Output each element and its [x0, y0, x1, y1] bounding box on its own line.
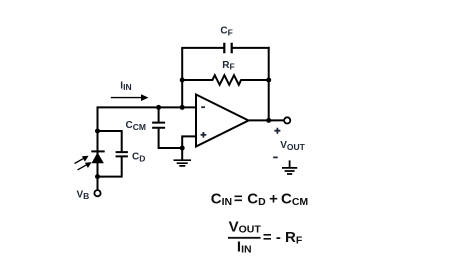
op-amp non-inverting input label +: [201, 132, 207, 138]
node junction output: [266, 118, 271, 123]
label + (VOUT positive): [274, 128, 280, 134]
svg-text:VOUT: VOUT: [280, 140, 305, 152]
arrow IIN current direction: [111, 97, 143, 99]
photodiode D1 anode triangle: [92, 152, 104, 163]
svg-text:CF: CF: [220, 26, 232, 38]
node junction inverting input / feedback left: [180, 105, 185, 110]
wire CCM bottom to ground node: [159, 128, 183, 148]
ground symbol (VOUT negative reference): [289, 160, 291, 167]
svg-text:RF: RF: [222, 60, 234, 72]
node junction RF right: [266, 78, 271, 83]
wire CD branch bottom: [97, 156, 122, 176]
node junction RF left: [180, 78, 185, 83]
wire feedback right vertical: [268, 47, 270, 121]
photodiode light arrow upper: [75, 158, 85, 163]
capacitor CF plates: [224, 43, 231, 53]
node junction input wire / CCM top: [156, 105, 161, 110]
wire left vertical (input node down through photodiode to VB terminal): [97, 106, 99, 189]
wire CCM top stub: [158, 107, 160, 122]
fraction bar: [228, 237, 261, 239]
node junction ground / CCM bottom / + input: [180, 146, 185, 151]
wire CD branch top: [97, 131, 122, 152]
capacitor CCM plates: [152, 123, 165, 128]
wire CF top right segment: [232, 47, 270, 49]
label - (VOUT negative): [273, 156, 278, 158]
svg-text:CD: CD: [132, 152, 145, 164]
photodiode D1 cathode bar: [91, 150, 104, 152]
wire feedback left vertical: [181, 48, 183, 108]
wire non-inverting input to ground node: [182, 136, 196, 148]
op-amp inverting input label -: [201, 106, 205, 108]
node junction photodiode bottom: [95, 174, 100, 179]
svg-text:IIN: IIN: [120, 80, 131, 92]
op-amp U1 triangle: [196, 95, 249, 147]
node junction photodiode top (input node / CD branch): [95, 129, 100, 134]
svg-text:CCM: CCM: [126, 120, 146, 132]
photodiode light arrow lower: [78, 165, 88, 170]
terminal VB open circle: [94, 190, 100, 196]
wire CF top left segment: [181, 47, 224, 49]
ground symbol (op-amp + input): [181, 148, 183, 160]
resistor RF (zigzag): [182, 75, 269, 85]
wire input node horizontal (photodiode to op-amp inverting input): [98, 106, 197, 108]
terminal VOUT open circle: [284, 117, 290, 123]
svg-text:VB: VB: [77, 189, 90, 201]
capacitor CD plates: [116, 152, 128, 156]
wire op-amp output: [249, 119, 285, 121]
